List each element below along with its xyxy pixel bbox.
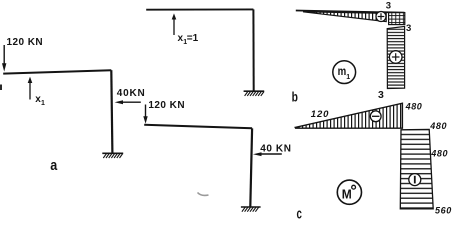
M0 diagram title circle — [337, 180, 361, 204]
m1 column moment bar (hatched) — [387, 26, 404, 88]
scan squiggle mark — [198, 193, 209, 196]
svg-text:=1: =1 — [187, 33, 199, 44]
wire frame-b beam member — [146, 8, 253, 10]
svg-text:3: 3 — [378, 89, 384, 101]
force arrow 40KN (frame a, leftward) — [115, 100, 141, 104]
M0 sign circle (column, vertical bar) — [409, 174, 421, 186]
wire frame-a beam member — [3, 70, 111, 73]
m1 corner block (cross hatched) — [389, 13, 405, 25]
svg-text:M: M — [342, 187, 352, 201]
svg-text:480: 480 — [405, 101, 423, 111]
m1 diagram title circle — [333, 61, 356, 84]
m1 beam moment triangle (hatched) — [303, 12, 386, 22]
label 480 (M0 column top value) — [429, 121, 447, 131]
label 480 (M0 corner, top) — [405, 101, 423, 111]
m1 plus sign circle (beam) — [376, 12, 386, 22]
label 40 KN (frame c) — [260, 143, 291, 154]
label a (figure letter) — [50, 157, 58, 174]
ground support frame-b — [244, 91, 265, 96]
svg-text:3: 3 — [406, 23, 411, 34]
label x1 (frame a) — [35, 94, 45, 107]
wire frame-c beam member — [144, 125, 252, 129]
force arrow 40 KN (frame c, leftward) — [253, 152, 282, 156]
svg-text:40 KN: 40 KN — [260, 143, 291, 154]
label 480 (M0 column mid value) — [430, 148, 448, 158]
label x1=1 (frame b) — [178, 33, 199, 46]
redundant arrow x1 (frame a, up) — [28, 77, 33, 100]
label 560 (M0 column bottom value) — [435, 206, 452, 216]
svg-text:480: 480 — [429, 121, 447, 131]
label 3 (m1 column value, bottom) — [378, 89, 384, 101]
svg-text:480: 480 — [430, 148, 448, 158]
label 120 KN (frame a) — [7, 37, 44, 48]
m1 plus sign circle (column) — [389, 51, 402, 64]
svg-text:560: 560 — [435, 206, 452, 216]
svg-text:120: 120 — [311, 109, 330, 120]
svg-text:40KN: 40KN — [117, 88, 146, 99]
wire frame-b column member — [252, 9, 254, 91]
m1 diagram beam axis line — [296, 11, 405, 13]
label b (figure letter) — [292, 89, 298, 105]
label 120 KN (frame c) — [148, 100, 185, 111]
svg-text:120 KN: 120 KN — [148, 100, 185, 111]
label 3 (m1 corner value, right) — [406, 23, 411, 34]
svg-text:3: 3 — [386, 0, 391, 11]
unit redundant arrow x1=1 (frame b, up) — [172, 13, 177, 35]
force arrow 120 KN (frame a, down) — [2, 45, 6, 72]
svg-text:1: 1 — [346, 74, 350, 81]
svg-text:c: c — [297, 205, 302, 221]
label c (figure letter) — [297, 205, 302, 222]
svg-text:b: b — [292, 89, 298, 105]
label 3 (m1 beam value, top) — [386, 0, 391, 11]
M0 beam moment triangle (hatched) — [295, 103, 402, 128]
label 120 (M0 beam value) — [311, 109, 330, 120]
scan smudge left edge — [0, 85, 2, 91]
svg-text:1: 1 — [41, 100, 45, 107]
ground support frame-c — [241, 207, 261, 212]
label 40KN (frame a) — [117, 88, 146, 99]
M0 minus sign circle (beam) — [370, 111, 381, 122]
M0 column moment bar (hatched trapezoid) — [400, 129, 433, 208]
svg-text:m: m — [338, 66, 347, 78]
force arrow 120 KN (frame c, down) — [143, 105, 147, 124]
svg-text:120 KN: 120 KN — [7, 37, 44, 48]
svg-text:a: a — [50, 157, 58, 174]
ground support frame-a — [102, 153, 123, 158]
wire frame-c column member — [250, 128, 252, 207]
wire frame-a column member — [111, 70, 112, 153]
